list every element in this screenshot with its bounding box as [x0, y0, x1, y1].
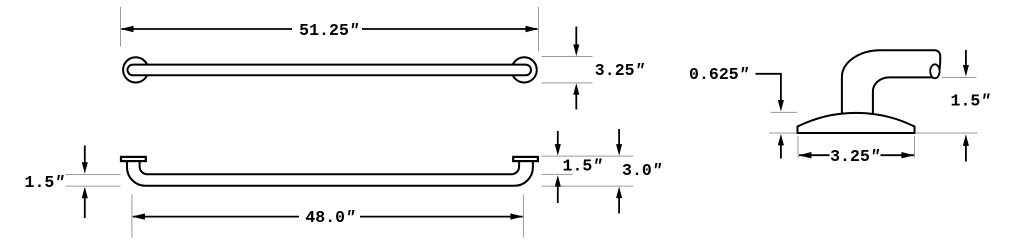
- down arrow (1.5 left): [84, 146, 86, 165]
- dimension line 48.0 left segment: [133, 216, 299, 218]
- extension line tube bottom (1.5 end dim): [942, 77, 977, 79]
- extension line dome base left: [769, 132, 796, 134]
- arrowhead left (48.0): [132, 213, 145, 219]
- up arrow (3.0): [618, 197, 620, 214]
- extension line bar bottom (right dims): [542, 185, 634, 187]
- extension line top (1.5 left dim): [66, 174, 121, 176]
- flange dome: [798, 113, 915, 133]
- extension line dome top (0.625): [771, 111, 798, 113]
- down arrow (3.0): [618, 129, 620, 146]
- extension line dome base right: [916, 132, 978, 134]
- svg-text:0.625″: 0.625″: [689, 65, 749, 84]
- extension line left (51.25 dim): [120, 7, 122, 47]
- up arrow (1.5 right): [557, 185, 559, 203]
- flange circle right: [512, 57, 537, 82]
- extension line left (3.25 end dim): [797, 136, 799, 158]
- svg-text:1.5″: 1.5″: [25, 173, 65, 192]
- up arrow (3.25): [575, 93, 577, 110]
- mounting flange cap right: [513, 157, 538, 161]
- dimension line 3.25 right segment + arrowhead: [881, 154, 914, 156]
- dimension line 51.25 left segment: [122, 28, 293, 30]
- extension line bar top (right dims): [542, 173, 573, 175]
- bar tube (capsule): [128, 65, 532, 76]
- bar end ellipse (tube opening): [930, 64, 939, 78]
- flange circle left: [123, 57, 148, 82]
- extension line right (51.25 dim): [538, 7, 540, 51]
- svg-text:1.5″: 1.5″: [563, 157, 603, 176]
- svg-text:1.5″: 1.5″: [951, 91, 991, 110]
- arrowhead right (51.25): [526, 26, 539, 32]
- extension line right (48.0 dim): [522, 195, 524, 238]
- tube outer contour: [842, 50, 940, 114]
- bar inner contour: [140, 161, 519, 174]
- svg-text:3.0″: 3.0″: [622, 161, 662, 180]
- tube bottom line: [889, 76, 935, 78]
- up arrow (1.5 left): [84, 197, 86, 219]
- extension line bottom (1.5 left dim): [66, 185, 121, 187]
- svg-text:3.25″: 3.25″: [830, 147, 880, 166]
- extension line top (3.25 dim): [542, 56, 593, 58]
- extension line left (48.0 dim): [131, 195, 133, 238]
- up arrow (1.5 end): [965, 145, 967, 162]
- extension line bottom (3.25 dim): [542, 82, 593, 84]
- leader arrowhead down (0.625): [778, 100, 784, 112]
- up arrow (0.625): [780, 144, 782, 159]
- dimension line 3.25 left segment + arrowhead: [799, 154, 830, 156]
- svg-text:48.0″: 48.0″: [305, 208, 355, 227]
- arrowhead left (51.25): [121, 26, 134, 32]
- dimension line 51.25 right segment: [362, 28, 538, 30]
- leader line (0.625): [756, 74, 781, 101]
- bar outer contour: [127, 161, 533, 186]
- tube inner contour: [873, 77, 890, 114]
- down arrow (1.5 right): [557, 131, 559, 146]
- dimension line 48.0 right segment: [360, 216, 523, 218]
- svg-text:3.25″: 3.25″: [595, 61, 645, 80]
- extension line right (3.25 end dim): [914, 136, 916, 158]
- down arrow (1.5 end): [965, 50, 967, 66]
- extension line flange top (right dims): [542, 155, 634, 157]
- mounting flange cap left: [121, 157, 146, 161]
- arrowhead right (48.0): [510, 213, 523, 219]
- svg-text:51.25″: 51.25″: [299, 21, 359, 40]
- down arrow (3.25): [575, 27, 577, 47]
